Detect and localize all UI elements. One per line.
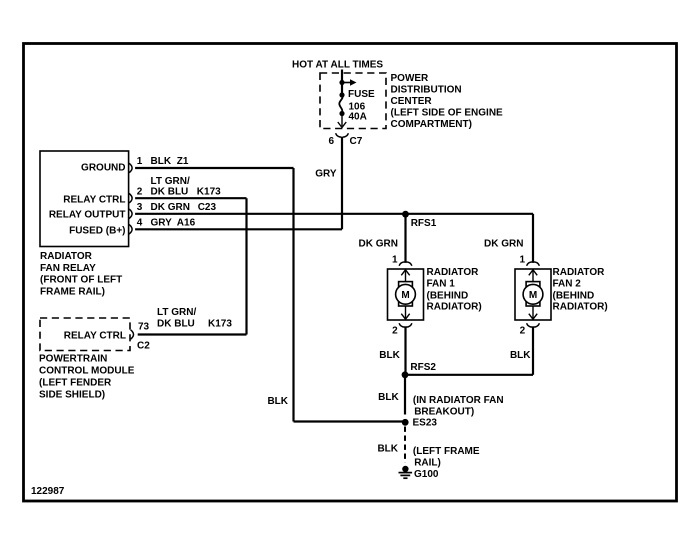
pin 4 number — [137, 218, 143, 229]
svg-text:DK GRN: DK GRN — [359, 238, 398, 249]
wire K173 vertical — [245, 198, 247, 334]
svg-text:2: 2 — [392, 325, 398, 336]
svg-text:RELAY CTRL: RELAY CTRL — [64, 330, 126, 341]
svg-text:GRY: GRY — [151, 218, 173, 229]
svg-text:POWER: POWER — [391, 73, 430, 84]
svg-text:C2: C2 — [137, 340, 150, 351]
svg-text:RADIATOR: RADIATOR — [553, 267, 606, 278]
powertrain control module box (dashed) — [40, 318, 130, 351]
svg-text:1: 1 — [137, 156, 143, 167]
radiator fan relay caption — [40, 251, 122, 297]
svg-text:POWERTRAIN: POWERTRAIN — [39, 353, 107, 364]
svg-text:FAN 1: FAN 1 — [427, 279, 456, 290]
svg-text:RADIATOR): RADIATOR) — [427, 302, 482, 313]
svg-text:4: 4 — [137, 218, 143, 229]
wire BLK fan 2 to RFS2 — [405, 374, 533, 376]
motor M1 circle — [396, 284, 416, 304]
fuse 106 element — [339, 95, 342, 114]
fan 2 motor brush bottom — [526, 302, 540, 307]
wire label DK GRN C23 — [151, 202, 217, 213]
wire K173 horizontal from relay — [135, 197, 246, 199]
wire DK GRN drop to fan 2 — [532, 214, 534, 263]
svg-text:73: 73 — [138, 321, 150, 332]
fan 1 motor brush bottom — [399, 302, 413, 307]
power distribution center box (dashed) — [320, 73, 386, 129]
PCM pin connector — [131, 330, 134, 339]
svg-text:HOT AT ALL TIMES: HOT AT ALL TIMES — [292, 60, 383, 71]
pin 73 number — [138, 321, 150, 332]
svg-text:DK BLU: DK BLU — [151, 187, 189, 198]
svg-text:RAIL): RAIL) — [414, 457, 441, 468]
svg-text:Z1: Z1 — [177, 156, 189, 167]
PCM terminal label RELAY CTRL — [64, 330, 126, 341]
wire BLK RFS2 to ES23 — [404, 375, 406, 415]
pin 2 number — [137, 187, 143, 198]
svg-text:(LEFT SIDE OF ENGINE: (LEFT SIDE OF ENGINE — [391, 108, 504, 119]
svg-text:FUSED (B+): FUSED (B+) — [69, 226, 125, 237]
svg-text:RADIATOR: RADIATOR — [427, 267, 480, 278]
wire label DK GRN (fan 2) — [484, 238, 523, 249]
wire GRY C7 down — [341, 137, 343, 230]
svg-text:K173: K173 — [197, 187, 221, 198]
node label ES23 — [413, 417, 438, 428]
svg-text:LT GRN/: LT GRN/ — [157, 307, 196, 318]
svg-text:C23: C23 — [198, 202, 217, 213]
svg-text:DK GRN: DK GRN — [151, 202, 190, 213]
svg-text:122987: 122987 — [31, 486, 65, 497]
fuse value label FUSE — [348, 89, 375, 100]
svg-text:BLK: BLK — [510, 350, 531, 361]
wire BLK Z1 horizontal — [135, 167, 293, 169]
wire DK GRN to fan 1 — [404, 214, 406, 263]
relay terminal label RELAY OUTPUT — [49, 209, 126, 220]
pin 3 number — [137, 202, 143, 213]
svg-text:6: 6 — [328, 136, 334, 147]
svg-text:(LEFT FENDER: (LEFT FENDER — [39, 378, 112, 389]
svg-text:(LEFT FRAME: (LEFT FRAME — [413, 446, 480, 457]
svg-text:RADIATOR): RADIATOR) — [553, 302, 608, 313]
svg-text:DK BLU: DK BLU — [157, 318, 195, 329]
svg-text:(BEHIND: (BEHIND — [553, 290, 595, 301]
wire BLK Z1 vertical — [292, 168, 294, 422]
node RFS1 — [402, 211, 409, 218]
svg-text:2: 2 — [520, 325, 526, 336]
svg-text:RFS1: RFS1 — [411, 218, 437, 229]
fan 2 pin 2 arrow — [529, 306, 537, 319]
svg-text:RFS2: RFS2 — [410, 362, 436, 373]
svg-text:RELAY OUTPUT: RELAY OUTPUT — [49, 209, 126, 220]
relay terminal label RELAY CTRL — [63, 195, 125, 206]
pin 1 number — [137, 156, 143, 167]
fan 1 top connector — [399, 262, 412, 266]
node label RFS1 — [411, 218, 437, 229]
relay terminal label GROUND — [81, 162, 125, 173]
wire label BLK (RFS2-ES23) — [378, 392, 399, 403]
svg-text:1: 1 — [520, 254, 526, 265]
connector C7 — [336, 133, 349, 137]
fan 2 motor brush top — [526, 282, 540, 288]
relay pin 1 connector — [129, 163, 132, 172]
wire label BLK (fan 1) — [379, 350, 400, 361]
arrow into connector C7 — [338, 114, 346, 128]
wire label BLK Z1 — [151, 156, 189, 167]
fan 1 motor brush top — [399, 282, 413, 288]
svg-text:BLK: BLK — [379, 350, 400, 361]
fuse value label 40A — [349, 111, 367, 122]
wire label LT GRN/ DK BLU K173 (PCM) — [157, 307, 232, 330]
motor M2 circle — [523, 284, 543, 304]
fuse value label 106 — [349, 102, 366, 113]
junction dot feed branch — [339, 80, 344, 85]
svg-text:CENTER: CENTER — [391, 96, 433, 107]
fuse F106 top terminal dot — [339, 92, 344, 97]
wire junction to fuse — [341, 83, 343, 96]
svg-text:SIDE SHIELD): SIDE SHIELD) — [39, 390, 105, 401]
wire feed into PDC — [341, 70, 343, 83]
fan 1 pin 1 arrow — [401, 270, 409, 282]
relay pin 4 connector — [129, 225, 132, 234]
svg-text:G100: G100 — [414, 469, 439, 480]
svg-text:COMPARTMENT): COMPARTMENT) — [391, 119, 472, 130]
svg-text:GROUND: GROUND — [81, 162, 125, 173]
svg-text:BLK: BLK — [378, 392, 399, 403]
fan 2 pin 1 arrow — [529, 270, 537, 282]
svg-text:K173: K173 — [208, 318, 232, 329]
svg-text:BLK: BLK — [377, 443, 398, 454]
svg-text:BLK: BLK — [267, 396, 288, 407]
svg-text:FAN 2: FAN 2 — [553, 279, 582, 290]
wire BLK ES23 to ground (dashed) — [404, 427, 406, 463]
fan 1 pin 2 number — [392, 325, 398, 336]
svg-text:LT GRN/: LT GRN/ — [151, 176, 190, 187]
diagram number 122987 — [31, 486, 65, 497]
wire BLK to splice ES23 — [294, 420, 406, 422]
border frame — [24, 44, 677, 502]
connector label C7 — [350, 136, 363, 147]
powertrain control module caption — [39, 353, 135, 400]
ground location label — [413, 446, 480, 469]
svg-text:FUSE: FUSE — [348, 89, 375, 100]
radiator fan 2 caption — [553, 267, 608, 313]
svg-text:A16: A16 — [177, 218, 196, 229]
svg-text:BREAKOUT): BREAKOUT) — [414, 406, 474, 417]
wire label BLK (fan 2) — [510, 350, 531, 361]
svg-text:M: M — [401, 290, 409, 301]
svg-text:2: 2 — [137, 187, 143, 198]
fan 2 pin 1 number — [520, 254, 526, 265]
svg-text:ES23: ES23 — [413, 417, 438, 428]
svg-text:(FRONT OF LEFT: (FRONT OF LEFT — [40, 275, 122, 286]
splice location label — [413, 395, 504, 418]
svg-text:40A: 40A — [349, 111, 367, 122]
fan 1 bottom connector — [399, 323, 412, 327]
wire label GRY — [315, 168, 337, 179]
radiator fan relay box — [40, 151, 129, 247]
svg-text:(BEHIND: (BEHIND — [427, 290, 469, 301]
fuse F106 bottom terminal dot — [339, 111, 344, 116]
svg-text:M: M — [529, 290, 537, 301]
svg-text:DK GRN: DK GRN — [484, 238, 523, 249]
node ES23 — [402, 419, 409, 426]
svg-text:FRAME RAIL): FRAME RAIL) — [40, 286, 105, 297]
wire label BLK (ground lead) — [377, 443, 398, 454]
relay pin 3 connector — [129, 209, 132, 218]
branch arrow to other circuits — [342, 79, 357, 86]
node RFS2 — [402, 371, 409, 378]
relay pin 2 connector — [129, 194, 132, 203]
svg-text:FAN RELAY: FAN RELAY — [40, 263, 96, 274]
node label RFS2 — [410, 362, 436, 373]
connector label C2 — [137, 340, 150, 351]
fan 1 pin 2 arrow — [401, 306, 409, 319]
power distribution center label — [391, 73, 504, 130]
svg-text:C7: C7 — [350, 136, 363, 147]
fan 2 bottom connector — [527, 323, 540, 327]
svg-text:3: 3 — [137, 202, 143, 213]
svg-text:1: 1 — [392, 254, 398, 265]
wire DK GRN C23 relay output — [135, 213, 533, 215]
relay terminal label FUSED (B+) — [69, 226, 125, 237]
wire label LT GRN/ DK BLU K173 — [151, 176, 222, 198]
svg-text:CONTROL MODULE: CONTROL MODULE — [39, 365, 135, 376]
wire BLK fan 1 down — [404, 326, 406, 375]
wire BLK fan 2 down — [532, 326, 534, 375]
radiator fan 2 motor box — [515, 269, 551, 320]
svg-text:(IN RADIATOR FAN: (IN RADIATOR FAN — [413, 395, 504, 406]
svg-text:DISTRIBUTION: DISTRIBUTION — [391, 85, 462, 96]
radiator fan 1 caption — [427, 267, 482, 313]
fan 2 pin 2 number — [520, 325, 526, 336]
fan 2 top connector — [527, 262, 540, 266]
ground label G100 — [414, 469, 439, 480]
svg-text:RELAY CTRL: RELAY CTRL — [63, 195, 125, 206]
svg-text:GRY: GRY — [315, 168, 337, 179]
wire label DK GRN (fan 1) — [359, 238, 398, 249]
wire label BLK left — [267, 396, 288, 407]
wire K173 to PCM — [138, 333, 247, 335]
net HOT AT ALL TIMES — [292, 60, 383, 71]
fan 1 pin 1 number — [392, 254, 398, 265]
svg-text:RADIATOR: RADIATOR — [40, 251, 93, 262]
radiator fan 1 motor box — [388, 269, 424, 320]
wire GRY A16 fused feed — [135, 228, 342, 230]
wire label GRY A16 — [151, 218, 196, 229]
ground G100 symbol — [399, 466, 413, 478]
pin 6 label — [328, 136, 334, 147]
svg-text:BLK: BLK — [151, 156, 172, 167]
